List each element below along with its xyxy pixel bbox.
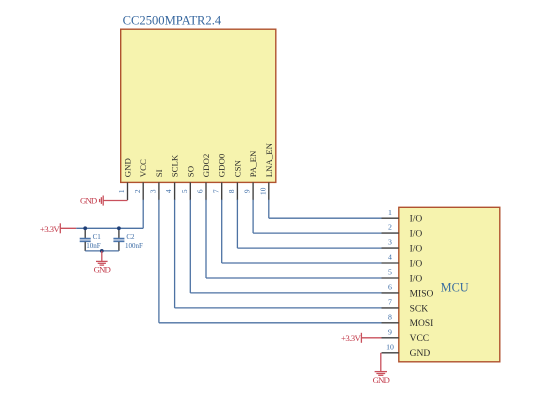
svg-text:GND: GND [123, 158, 133, 177]
svg-text:GND: GND [373, 375, 390, 385]
svg-text:2: 2 [388, 223, 392, 232]
component U2 MCU body [399, 207, 500, 361]
pin 7 (SCK) of MCU [382, 298, 429, 315]
svg-text:C2: C2 [126, 233, 135, 241]
pin 1 (GND) of CC2500 [117, 158, 132, 200]
wire CC2500 pin 4 (SCLK) to MCU pin 7 (SCK) [175, 200, 382, 308]
svg-text:7: 7 [388, 298, 392, 307]
designator label CC2500MPATR2.4 [123, 14, 222, 28]
svg-text:PA_EN: PA_EN [248, 150, 258, 177]
svg-text:SI: SI [154, 169, 164, 177]
pin 5 (I/O) of MCU [382, 268, 423, 285]
svg-text:7: 7 [211, 189, 220, 193]
wire +3.3V stub (red) [60, 227, 76, 229]
svg-text:I/O: I/O [410, 245, 423, 255]
capacitor C2 100nF [113, 228, 124, 251]
capacitor C1 10nF [80, 228, 91, 251]
pin 1 (I/O) of MCU [382, 208, 423, 225]
svg-text:3: 3 [149, 189, 158, 193]
svg-text:MCU: MCU [441, 281, 469, 295]
svg-text:I/O: I/O [410, 215, 423, 225]
svg-text:9: 9 [388, 327, 392, 336]
svg-text:GDO2: GDO2 [201, 154, 211, 177]
pin 8 (CSN) of CC2500 [227, 159, 242, 200]
wire CC2500 pin 7 (GDO0) to MCU pin 4 (I/O) [222, 200, 382, 263]
svg-text:VCC: VCC [138, 159, 148, 177]
wire CC2500 pin 5 (SO) to MCU pin 6 (MISO) [190, 200, 381, 293]
wire CC2500 pin 10 (LNA_EN) to MCU pin 1 (I/O) [269, 200, 382, 219]
wire CC2500 pin 6 (GDO2) to MCU pin 5 (I/O) [206, 200, 382, 278]
pin 7 (GDO0) of CC2500 [211, 153, 226, 200]
svg-text:8: 8 [388, 312, 392, 321]
wire pin1 to ground [103, 200, 127, 202]
svg-text:SO: SO [185, 166, 195, 177]
svg-text:CSN: CSN [232, 159, 242, 177]
svg-text:C1: C1 [93, 233, 102, 241]
ground symbol at CC2500 pin 1 [80, 196, 103, 206]
label C2 [126, 233, 135, 241]
svg-text:I/O: I/O [410, 259, 423, 269]
svg-text:6: 6 [196, 189, 205, 193]
svg-text:GND: GND [80, 196, 97, 206]
ground symbol at MCU pin 10 [373, 372, 390, 385]
svg-text:4: 4 [388, 253, 392, 262]
svg-text:2: 2 [133, 189, 142, 193]
svg-text:LNA_EN: LNA_EN [264, 142, 274, 177]
svg-text:8: 8 [227, 189, 236, 193]
svg-text:9: 9 [243, 189, 252, 193]
pin 2 (I/O) of MCU [382, 223, 423, 240]
svg-text:I/O: I/O [410, 274, 423, 284]
junction dot C2 top [117, 226, 121, 230]
pin 10 (GND) of MCU [382, 342, 431, 359]
wire CC2500 pin 9 (PA_EN) to MCU pin 2 (I/O) [253, 200, 381, 234]
pin 6 (GDO2) of CC2500 [196, 154, 211, 200]
wire CC2500 pin 8 (CSN) to MCU pin 3 (I/O) [237, 200, 381, 249]
pin 4 (I/O) of MCU [382, 253, 423, 270]
svg-text:10: 10 [258, 187, 267, 195]
svg-text:10nF: 10nF [86, 242, 101, 250]
svg-text:CC2500MPATR2.4: CC2500MPATR2.4 [123, 14, 222, 28]
svg-text:SCK: SCK [410, 304, 429, 314]
svg-text:3: 3 [388, 238, 392, 247]
junction dot cap bottom [100, 249, 104, 253]
svg-text:GND: GND [94, 265, 111, 275]
svg-text:I/O: I/O [410, 230, 423, 240]
svg-text:1: 1 [117, 189, 126, 193]
pin 2 (VCC) of CC2500 [133, 159, 148, 200]
svg-text:SCLK: SCLK [170, 154, 180, 177]
pin 10 (LNA_EN) of CC2500 [258, 142, 273, 200]
wire capacitor bottoms [85, 250, 119, 252]
svg-text:+3.3V: +3.3V [40, 224, 61, 234]
power +3.3V symbol at MCU pin 9 [341, 333, 362, 343]
svg-text:MOSI: MOSI [410, 319, 434, 329]
pin 8 (MOSI) of MCU [382, 312, 434, 329]
junction dot C1 top [83, 226, 87, 230]
label MCU [441, 281, 469, 295]
svg-text:5: 5 [180, 189, 189, 193]
value 100nF [125, 242, 143, 250]
svg-text:100nF: 100nF [125, 242, 143, 250]
pin 3 (I/O) of MCU [382, 238, 423, 255]
wire MCU GND pin down [380, 353, 382, 372]
svg-text:1: 1 [388, 208, 392, 217]
svg-text:10: 10 [386, 342, 394, 351]
svg-text:4: 4 [164, 189, 173, 193]
pin 5 (SO) of CC2500 [180, 166, 195, 200]
wire CC2500 pin 3 (SI) to MCU pin 8 (MOSI) [159, 200, 382, 323]
svg-text:+3.3V: +3.3V [341, 333, 362, 343]
RF module U1 CC2500MPATR2.4 body [121, 29, 276, 182]
label C1 [93, 233, 102, 241]
svg-text:MISO: MISO [410, 289, 434, 299]
pin 9 (VCC) of MCU [382, 327, 430, 344]
svg-text:VCC: VCC [410, 334, 430, 344]
svg-text:GND: GND [410, 349, 431, 359]
ground symbol below capacitors [94, 251, 111, 275]
svg-text:6: 6 [388, 283, 392, 292]
wire +3.3V rail to VCC pin 2 [76, 200, 143, 229]
svg-text:5: 5 [388, 268, 392, 277]
pin 4 (SCLK) of CC2500 [164, 154, 179, 200]
pin 3 (SI) of CC2500 [149, 169, 164, 200]
pin 6 (MISO) of MCU [382, 283, 434, 300]
value 10nF [86, 242, 101, 250]
pin 9 (PA_EN) of CC2500 [243, 150, 258, 200]
svg-text:GDO0: GDO0 [217, 153, 227, 177]
wire +3.3V to MCU VCC [361, 337, 381, 339]
power +3.3V symbol (left) [40, 223, 61, 234]
